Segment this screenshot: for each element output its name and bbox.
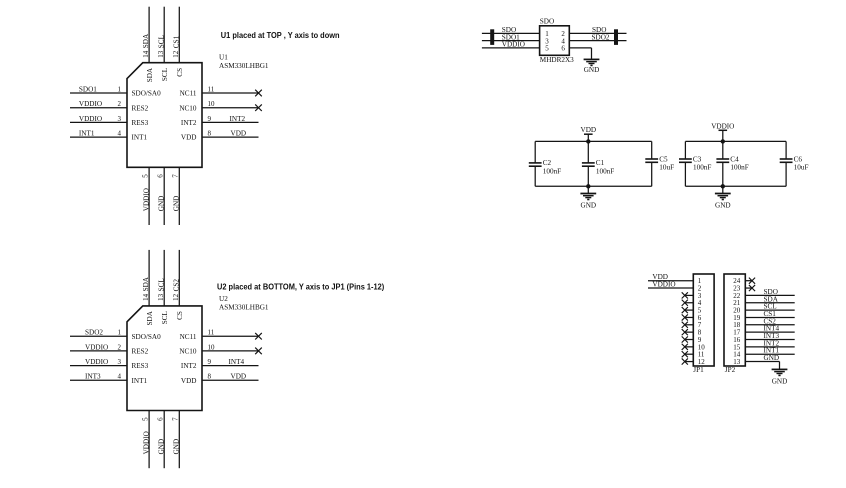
svg-text:3: 3 bbox=[118, 358, 122, 366]
wire U1 pin 6 (GND) bottom bbox=[163, 167, 165, 225]
wire U1 pin 9 (INT2) bbox=[202, 121, 259, 123]
IC U2 ASM330LHBG1 body bbox=[127, 306, 202, 411]
svg-text:SDA: SDA bbox=[146, 310, 154, 325]
svg-text:VDDIO: VDDIO bbox=[143, 431, 151, 454]
svg-text:RES3: RES3 bbox=[132, 362, 149, 370]
svg-text:2: 2 bbox=[118, 343, 122, 351]
svg-text:U2: U2 bbox=[219, 295, 228, 303]
bus tap bar left bbox=[490, 29, 494, 45]
capacitor C1 100nF bbox=[587, 141, 589, 163]
power symbol VDDIO bbox=[722, 130, 724, 141]
svg-text:CS1: CS1 bbox=[172, 35, 180, 48]
svg-text:SDO/SA0: SDO/SA0 bbox=[132, 90, 162, 98]
svg-text:8: 8 bbox=[208, 130, 212, 138]
svg-text:NC10: NC10 bbox=[179, 348, 197, 356]
svg-text:13: 13 bbox=[733, 358, 741, 366]
svg-text:C3: C3 bbox=[693, 155, 702, 163]
svg-text:JP1: JP1 bbox=[693, 366, 704, 374]
wire JP2 pin 15 (INT2) bbox=[745, 346, 794, 348]
svg-text:5: 5 bbox=[545, 45, 549, 53]
wire to ground bbox=[722, 186, 724, 193]
wire JP2 pin 16 (INT3) bbox=[745, 339, 794, 341]
no-connect stub JP1 pin 8 bbox=[685, 331, 694, 333]
capacitor C4 100nF bbox=[722, 141, 724, 159]
junction node bottom bbox=[586, 184, 590, 188]
svg-text:14: 14 bbox=[142, 293, 150, 301]
wire pin 4 (SDO2) bbox=[569, 40, 626, 42]
svg-text:INT1: INT1 bbox=[132, 377, 148, 385]
svg-text:11: 11 bbox=[208, 85, 215, 93]
wire JP2 pin 19 (CS1) bbox=[745, 316, 794, 318]
svg-text:RES3: RES3 bbox=[132, 119, 149, 127]
svg-text:12: 12 bbox=[172, 293, 180, 301]
svg-text:INT2: INT2 bbox=[181, 362, 197, 370]
svg-text:JP2: JP2 bbox=[725, 366, 736, 374]
svg-text:6: 6 bbox=[157, 417, 165, 421]
capacitor C5 10uF bbox=[651, 141, 653, 159]
svg-text:11: 11 bbox=[208, 329, 215, 337]
wire U1 pin 13 (SCL) top bbox=[163, 7, 165, 63]
svg-text:4: 4 bbox=[118, 130, 122, 138]
svg-text:VDDIO: VDDIO bbox=[85, 358, 108, 366]
no-connect X on U2 pin 10 bbox=[255, 348, 262, 355]
svg-text:SDO/SA0: SDO/SA0 bbox=[132, 333, 162, 341]
ground symbol bbox=[580, 193, 596, 195]
wire VDD to JP1 pin 1 bbox=[648, 280, 693, 282]
svg-text:C4: C4 bbox=[730, 155, 739, 163]
wire JP2 pin 13 (GND) bbox=[745, 361, 779, 363]
no-connect stub JP1 pin 7 bbox=[685, 324, 694, 326]
svg-text:RES2: RES2 bbox=[132, 348, 149, 356]
no-connect stub JP1 pin 9 bbox=[685, 339, 694, 341]
no-connect stub JP2 pin 24 bbox=[745, 280, 752, 282]
svg-text:14: 14 bbox=[142, 50, 150, 58]
wire JP2 pin 14 (INT1) bbox=[745, 353, 794, 355]
wire pin 2 (SDO) bbox=[569, 32, 626, 34]
wire U2 pin 9 (INT2) bbox=[202, 365, 259, 367]
svg-text:U1 placed at TOP , Y axis to d: U1 placed at TOP , Y axis to down bbox=[221, 31, 340, 41]
svg-text:10: 10 bbox=[208, 343, 216, 351]
svg-text:7: 7 bbox=[172, 174, 180, 178]
connector JP1 body bbox=[693, 274, 714, 366]
svg-text:VDD: VDD bbox=[581, 126, 597, 134]
svg-text:INT3: INT3 bbox=[85, 373, 101, 381]
svg-text:13: 13 bbox=[157, 50, 165, 58]
svg-text:SDA: SDA bbox=[142, 276, 150, 291]
capacitor C3 100nF bbox=[684, 141, 686, 159]
wire U1 pin 3 (VDDIO) bbox=[70, 121, 127, 123]
svg-text:C2: C2 bbox=[543, 159, 552, 167]
svg-text:ASM330LHBG1: ASM330LHBG1 bbox=[219, 303, 269, 311]
svg-text:SDA: SDA bbox=[142, 33, 150, 48]
wire top rail VDDIO bbox=[685, 140, 786, 142]
wire JP2 pin 22 (SDO) bbox=[745, 294, 794, 296]
svg-text:SCL: SCL bbox=[161, 311, 169, 324]
svg-text:12: 12 bbox=[172, 50, 180, 58]
svg-text:NC10: NC10 bbox=[179, 104, 197, 112]
wire U2 pin 12 (CS2) top bbox=[178, 250, 180, 306]
ground symbol bbox=[772, 368, 788, 370]
svg-text:SDO: SDO bbox=[540, 18, 554, 26]
svg-text:MHDR2X3: MHDR2X3 bbox=[540, 56, 574, 64]
wire U1 pin 4 (INT1) bbox=[70, 136, 127, 138]
wire U1 pin 12 (CS1) top bbox=[178, 7, 180, 63]
wire bottom rail GND bbox=[685, 185, 786, 187]
junction node bottom bbox=[721, 184, 725, 188]
svg-text:GND: GND bbox=[173, 196, 181, 212]
svg-text:100nF: 100nF bbox=[543, 167, 561, 175]
no-connect X on U2 pin 11 bbox=[255, 333, 262, 340]
svg-text:6: 6 bbox=[157, 174, 165, 178]
svg-text:VDD: VDD bbox=[181, 377, 197, 385]
wire U2 pin 2 (VDDIO) bbox=[70, 350, 127, 352]
svg-text:SCL: SCL bbox=[161, 68, 169, 81]
svg-text:ASM330LHBG1: ASM330LHBG1 bbox=[219, 62, 269, 70]
svg-text:C6: C6 bbox=[794, 155, 803, 163]
svg-text:NC11: NC11 bbox=[180, 333, 197, 341]
wire U2 pin 13 (SCL) top bbox=[163, 250, 165, 306]
svg-text:GND: GND bbox=[173, 439, 181, 455]
svg-text:100nF: 100nF bbox=[730, 163, 748, 171]
wire U1 pin 14 (SDA) top bbox=[148, 7, 150, 63]
svg-text:13: 13 bbox=[157, 293, 165, 301]
wire U2 pin 5 (VDDIO) bottom bbox=[148, 411, 150, 469]
connector J? MHDR2X3 body bbox=[540, 26, 570, 56]
wire U2 pin 10 (NC10) bbox=[202, 350, 259, 352]
svg-text:VDDIO: VDDIO bbox=[711, 122, 734, 130]
svg-text:2: 2 bbox=[118, 100, 122, 108]
no-connect stub JP2 pin 23 bbox=[745, 287, 752, 289]
wire U2 pin 14 (SDA) top bbox=[148, 250, 150, 306]
no-connect stub JP1 pin 6 bbox=[685, 316, 694, 318]
svg-text:10uF: 10uF bbox=[794, 163, 809, 171]
svg-text:GND: GND bbox=[764, 354, 780, 362]
svg-text:GND: GND bbox=[772, 378, 788, 386]
svg-text:C1: C1 bbox=[596, 159, 605, 167]
wire U1 pin 2 (VDDIO) bbox=[70, 107, 127, 109]
svg-text:INT2: INT2 bbox=[230, 115, 246, 123]
wire U1 pin 1 (SDO1) bbox=[70, 92, 127, 94]
svg-text:GND: GND bbox=[584, 66, 600, 74]
svg-text:7: 7 bbox=[172, 417, 180, 421]
wire U1 pin 11 (NC11) bbox=[202, 92, 259, 94]
svg-text:VDDIO: VDDIO bbox=[502, 41, 525, 49]
svg-text:VDD: VDD bbox=[231, 373, 247, 381]
wire U1 pin 7 (GND) bottom bbox=[178, 167, 180, 225]
wire U2 pin 1 (SDO2) bbox=[70, 335, 127, 337]
svg-text:INT4: INT4 bbox=[229, 358, 245, 366]
IC U1 ASM330LHBG1 body bbox=[127, 63, 202, 168]
capacitor C2 100nF bbox=[534, 141, 536, 163]
svg-text:INT1: INT1 bbox=[132, 134, 148, 142]
no-connect stub JP1 pin 12 bbox=[685, 361, 694, 363]
svg-text:SDO2: SDO2 bbox=[85, 329, 103, 337]
svg-text:4: 4 bbox=[118, 373, 122, 381]
wire bottom rail GND bbox=[535, 185, 652, 187]
svg-text:GND: GND bbox=[158, 196, 166, 212]
svg-text:NC11: NC11 bbox=[180, 90, 197, 98]
wire VDDIO to JP1 pin 2 bbox=[648, 287, 693, 289]
ground symbol bbox=[584, 58, 600, 60]
svg-text:1: 1 bbox=[118, 85, 122, 93]
no-connect stub JP1 pin 4 bbox=[685, 302, 694, 304]
svg-text:CS: CS bbox=[176, 311, 184, 320]
svg-text:100nF: 100nF bbox=[693, 163, 711, 171]
svg-text:5: 5 bbox=[141, 174, 149, 178]
svg-text:VDDIO: VDDIO bbox=[143, 188, 151, 211]
svg-text:SCL: SCL bbox=[157, 278, 165, 291]
svg-text:VDDIO: VDDIO bbox=[79, 100, 102, 108]
power symbol VDD bbox=[587, 134, 589, 141]
svg-text:10uF: 10uF bbox=[659, 163, 674, 171]
connector JP2 body bbox=[724, 274, 745, 366]
svg-text:GND: GND bbox=[581, 202, 597, 210]
no-connect stub JP1 pin 10 bbox=[685, 346, 694, 348]
svg-text:CS2: CS2 bbox=[172, 279, 180, 292]
svg-text:VDDIO: VDDIO bbox=[85, 343, 108, 351]
svg-text:3: 3 bbox=[118, 115, 122, 123]
wire U1 pin 5 (VDDIO) bottom bbox=[148, 167, 150, 225]
wire into pin 3 (SDO1) bbox=[482, 40, 540, 42]
svg-text:CS: CS bbox=[176, 68, 184, 77]
svg-text:VDDIO: VDDIO bbox=[652, 281, 675, 289]
svg-text:INT1: INT1 bbox=[79, 130, 95, 138]
no-connect stub JP1 pin 3 bbox=[685, 294, 694, 296]
svg-text:SDA: SDA bbox=[146, 67, 154, 82]
svg-text:U2 placed at BOTTOM, Y axis to: U2 placed at BOTTOM, Y axis to JP1 (Pins… bbox=[217, 282, 385, 292]
capacitor C6 10uF bbox=[785, 141, 787, 159]
svg-text:VDDIO: VDDIO bbox=[79, 115, 102, 123]
svg-text:SDO2: SDO2 bbox=[592, 33, 610, 41]
wire U2 pin 8 (VDD) bbox=[202, 379, 259, 381]
svg-text:SDO1: SDO1 bbox=[79, 85, 97, 93]
wire U2 pin 3 (VDDIO) bbox=[70, 365, 127, 367]
wire into pin 5 (VDDIO) bbox=[482, 47, 540, 49]
no-connect stub JP1 pin 5 bbox=[685, 309, 694, 311]
wire JP2 pin 17 (INT4) bbox=[745, 331, 794, 333]
svg-text:5: 5 bbox=[141, 417, 149, 421]
wire top rail VDD bbox=[535, 140, 652, 142]
wire U2 pin 7 (GND) bottom bbox=[178, 411, 180, 469]
ground symbol bbox=[715, 193, 731, 195]
wire U1 pin 10 (NC10) bbox=[202, 107, 259, 109]
svg-text:10: 10 bbox=[208, 100, 216, 108]
no-connect X on U1 pin 11 bbox=[255, 90, 262, 97]
wire JP2 pin 21 (SDA) bbox=[745, 302, 794, 304]
svg-text:1: 1 bbox=[118, 329, 122, 337]
no-connect stub JP1 pin 11 bbox=[685, 353, 694, 355]
svg-text:GND: GND bbox=[715, 202, 731, 210]
wire U2 pin 4 (INT3) bbox=[70, 379, 127, 381]
wire to ground bbox=[587, 186, 589, 193]
svg-text:SCL: SCL bbox=[157, 35, 165, 48]
wire pin 6 to ground bbox=[569, 47, 591, 49]
wire down to ground bbox=[779, 362, 781, 370]
svg-text:12: 12 bbox=[698, 358, 706, 366]
wire U2 pin 6 (GND) bottom bbox=[163, 411, 165, 469]
svg-text:INT2: INT2 bbox=[181, 119, 197, 127]
no-connect X on U1 pin 10 bbox=[255, 104, 262, 111]
wire into pin 1 (SDO) bbox=[482, 32, 540, 34]
wire JP2 pin 18 (CS2) bbox=[745, 324, 794, 326]
svg-text:VDD: VDD bbox=[231, 130, 247, 138]
svg-text:100nF: 100nF bbox=[596, 167, 614, 175]
svg-text:RES2: RES2 bbox=[132, 104, 149, 112]
wire U1 pin 8 (VDD) bbox=[202, 136, 259, 138]
junction node top bbox=[721, 139, 725, 143]
wire JP2 pin 20 (SCL) bbox=[745, 309, 794, 311]
svg-text:C5: C5 bbox=[659, 155, 668, 163]
wire U2 pin 11 (NC11) bbox=[202, 335, 259, 337]
svg-text:9: 9 bbox=[208, 358, 212, 366]
svg-text:VDD: VDD bbox=[181, 134, 197, 142]
svg-text:6: 6 bbox=[561, 45, 565, 53]
svg-text:GND: GND bbox=[158, 439, 166, 455]
svg-text:8: 8 bbox=[208, 373, 212, 381]
svg-text:9: 9 bbox=[208, 115, 212, 123]
bus tap bar right bbox=[614, 29, 618, 45]
svg-text:U1: U1 bbox=[219, 53, 228, 61]
junction node top bbox=[586, 139, 590, 143]
